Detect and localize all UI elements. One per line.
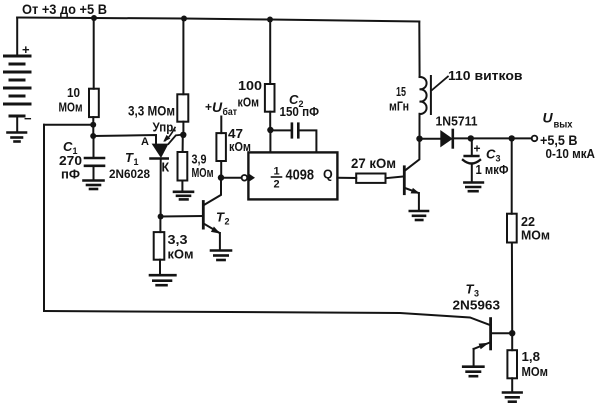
svg-text:пФ: пФ [61, 167, 80, 182]
wire feedback left vertical [43, 125, 45, 311]
node T3 collector / 1,8 MOm [509, 330, 515, 336]
arrow Упр pointer [165, 128, 175, 141]
node cathode / 3,3k / T2 base [158, 214, 164, 220]
wire node into 4098 top [269, 130, 271, 152]
label 110 витков [448, 68, 523, 83]
ground under T3 [463, 367, 483, 377]
label 27 кОм [351, 156, 396, 171]
svg-text:кОм: кОм [168, 247, 194, 262]
thyristor T1 2N6028 triangle [152, 144, 169, 158]
label T1 2N6028 [109, 150, 170, 181]
svg-text:0-10 мкА: 0-10 мкА [546, 146, 596, 161]
resistor 47 кОм [216, 133, 226, 161]
transistor T2 collector [204, 178, 221, 205]
node 100k / C2 / 4098 [267, 127, 273, 133]
ground under battery [8, 133, 27, 142]
inductor core line [430, 76, 432, 114]
node top rail at 3,3 MOm [181, 16, 187, 22]
wire node to input bubble [221, 177, 242, 179]
svg-text:МОм: МОм [192, 165, 214, 180]
label C2 150 пФ [280, 92, 320, 119]
wire 22 MOm feed [511, 138, 513, 213]
resistor 10 МОм [89, 89, 99, 117]
wire 22 MOm to T3 node [511, 243, 513, 334]
capacitor C2 [292, 124, 298, 138]
node top rail at 100 kOm [267, 17, 273, 23]
svg-text:C: C [486, 147, 496, 162]
label 1N5711 [436, 115, 478, 129]
IC U1 1/2 4098 box [248, 152, 337, 199]
wire 1,8 MOm bottom lead [511, 378, 513, 392]
svg-text:10: 10 [67, 85, 80, 100]
wire node to diode anode [420, 138, 441, 140]
svg-text:1N5711: 1N5711 [436, 115, 478, 129]
label C3 1 мкФ [476, 147, 509, 178]
capacitor C1 [85, 158, 104, 166]
svg-text:2N5963: 2N5963 [453, 299, 501, 313]
wire T1 cathode down [160, 159, 162, 217]
wire C3 top lead [471, 138, 473, 155]
resistor 1,8 МОм [507, 350, 517, 378]
svg-text:бат: бат [223, 106, 238, 118]
svg-text:МОм: МОм [521, 228, 550, 243]
wire diode to output line [453, 137, 532, 139]
wire 3,3k top lead [159, 217, 161, 233]
wire anode from node to T1 [93, 135, 156, 144]
node T2 collector / 4098 input [218, 174, 224, 180]
label T3 2N5963 [453, 282, 501, 313]
wire node to 1,8 MOm [511, 333, 513, 350]
ground under 3,9 MOm [174, 192, 193, 200]
transistor Q4 base bar [403, 167, 406, 194]
node feedback tap [90, 122, 96, 128]
svg-text:110 витков: 110 витков [448, 68, 523, 83]
node gate divider [180, 132, 186, 138]
wire 100k bottom [269, 112, 271, 130]
pointer 110 витков [432, 77, 448, 91]
svg-text:3,3 МОм: 3,3 МОм [128, 104, 175, 119]
resistor 100 кОм [265, 84, 275, 112]
node top rail at 10 MOm [91, 15, 97, 21]
svg-text:2: 2 [274, 179, 280, 191]
svg-text:МОм: МОм [59, 100, 83, 115]
svg-text:C: C [63, 139, 73, 154]
wire 27k to Q4 base [386, 177, 404, 179]
wire 3,9 MOm top lead [182, 135, 184, 152]
wire Q4 emitter to ground [418, 193, 420, 211]
wire node to C2 left plate [270, 129, 291, 131]
label 22 МОм [521, 214, 550, 243]
resistor 27 кОм [356, 174, 385, 183]
ground under C1 [84, 181, 104, 190]
wire feedback bottom to T3 base [44, 311, 490, 325]
wire inductor drop from top rail [418, 22, 420, 78]
input triangle of 4098 [249, 174, 255, 182]
transistor T3 emitter [474, 343, 490, 349]
wire 10 MOm bottom [92, 117, 94, 137]
thyristor T1 cathode bar [151, 157, 168, 160]
svg-text:3: 3 [474, 289, 479, 299]
thyristor T1 gate wire [168, 135, 183, 144]
transistor T3 collector [492, 332, 513, 334]
transistor Q4 collector [405, 141, 420, 171]
label T2 [216, 210, 230, 227]
ground under Q4 [410, 211, 428, 220]
label Упр. [153, 121, 177, 135]
resistor 3,3 МОм [177, 94, 188, 121]
label +Uбат [205, 99, 237, 118]
svg-text:100: 100 [238, 78, 262, 93]
wire 10 MOm feed [93, 18, 95, 89]
label 100 кОм [238, 78, 263, 110]
ground under 3,3k [150, 275, 175, 285]
wire top rail [17, 18, 419, 22]
label 15 мГн [389, 84, 409, 114]
wire T3 emitter to ground [473, 349, 475, 367]
svg-text:К: К [162, 161, 170, 175]
label A anode [141, 136, 149, 148]
wire feedback left horizontal [44, 124, 93, 126]
wire battery negative lead [16, 116, 18, 133]
wire C1 bottom lead [93, 166, 95, 181]
wire inductor bottom to node [419, 114, 421, 141]
node C1 / anode tap [90, 133, 96, 139]
diode D1 cathode bar [451, 130, 454, 147]
transistor Q4 emitter [405, 188, 418, 193]
svg-text:А: А [141, 136, 149, 148]
svg-text:27 кОм: 27 кОм [351, 156, 396, 171]
node C3 tap [468, 135, 474, 141]
diode D1 1N5711 triangle [440, 130, 453, 147]
wire C2 right plate into 4098 top [298, 130, 316, 152]
svg-text:От +3 до +5 В: От +3 до +5 В [22, 2, 107, 17]
svg-text:15: 15 [396, 84, 406, 99]
label 1,8 МОм [522, 349, 549, 379]
wire 4098 Q output to 27k [337, 177, 356, 179]
label 3,3 кОм [168, 232, 194, 262]
wire T2 emitter to ground [219, 233, 221, 251]
label 3,3 МОм [128, 104, 175, 119]
svg-text:U: U [543, 110, 554, 126]
resistor 22 МОм [507, 214, 517, 243]
resistor 3,9 МОм [178, 152, 188, 181]
wire 47k bottom to node [220, 161, 222, 178]
label 3,9 МОм [192, 152, 214, 181]
svg-text:4098: 4098 [286, 167, 315, 184]
input bubble of 4098 [242, 175, 248, 181]
wire battery positive lead [16, 18, 18, 57]
ground under 1,8 MOm [503, 393, 522, 402]
label 47 кОм [228, 126, 251, 154]
label 10 МОм [59, 85, 83, 115]
label C1 270 пФ [59, 139, 82, 182]
wire 3,9 MOm bottom lead [181, 181, 183, 192]
svg-text:+: + [205, 100, 212, 114]
svg-text:1: 1 [134, 157, 139, 167]
svg-text:+: + [22, 42, 30, 57]
svg-text:мГн: мГн [389, 99, 409, 114]
wire Ubat to 47k [220, 117, 222, 134]
transistor T2 base bar [202, 202, 205, 229]
svg-text:1 мкФ: 1 мкФ [476, 162, 509, 177]
svg-text:1: 1 [274, 166, 280, 178]
wire 100k feed [269, 20, 271, 85]
wire C3 bottom lead [471, 164, 473, 183]
label supply От +3 до +5 В [22, 2, 107, 17]
svg-text:2: 2 [225, 217, 230, 227]
ground under T2 [211, 251, 231, 261]
svg-text:1,8: 1,8 [522, 349, 541, 364]
wire 3,3k bottom lead [159, 260, 161, 276]
svg-text:U: U [212, 99, 223, 115]
svg-text:+: + [474, 142, 481, 156]
label 1/2 4098 Q [274, 166, 334, 191]
svg-text:3,3: 3,3 [168, 232, 188, 247]
wire node to T2 base [161, 215, 203, 218]
node collector / diode [416, 136, 422, 142]
svg-text:150 пФ: 150 пФ [280, 104, 320, 119]
transistor T3 base bar [489, 319, 492, 349]
label Uвых +5,5 В 0-10 мкА [540, 110, 596, 162]
svg-text:МОм: МОм [522, 364, 549, 379]
svg-text:вых: вых [554, 119, 573, 131]
svg-text:2N6028: 2N6028 [109, 167, 150, 181]
node 22 MOm tap [509, 135, 515, 141]
ground under C3 [464, 183, 483, 192]
resistor 3,3 кОм [154, 232, 165, 260]
output terminal circle [532, 136, 538, 142]
label C3 plus [474, 142, 481, 156]
inductor L1 15 мГн [420, 77, 427, 114]
wire C1 top lead [93, 136, 95, 158]
wire 3,3 MOm bottom [182, 122, 184, 135]
wire 3,3 MOm feed [182, 19, 184, 95]
svg-text:−: − [24, 111, 32, 126]
svg-text:Q: Q [323, 168, 333, 182]
capacitor C3 polarized [463, 156, 480, 164]
svg-text:кОм: кОм [238, 95, 260, 110]
battery B1 [5, 42, 33, 126]
transistor T2 emitter [204, 224, 219, 233]
